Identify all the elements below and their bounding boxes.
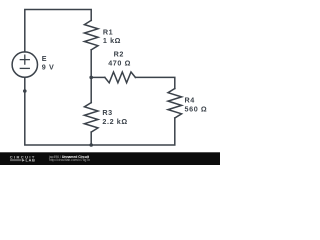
svg-text:1 kΩ: 1 kΩ xyxy=(103,36,121,45)
svg-text:470 Ω: 470 Ω xyxy=(108,58,131,67)
svg-text:R1: R1 xyxy=(103,27,113,36)
svg-text:http://circuitlab.com/c/75g7b: http://circuitlab.com/c/75g7b xyxy=(49,158,90,162)
svg-text:560 Ω: 560 Ω xyxy=(185,105,208,114)
svg-text:2.2 kΩ: 2.2 kΩ xyxy=(102,117,127,126)
svg-text:LAB: LAB xyxy=(26,157,36,162)
svg-text:R4: R4 xyxy=(185,95,195,104)
svg-text:9 V: 9 V xyxy=(42,63,55,72)
svg-text:R3: R3 xyxy=(102,108,112,117)
